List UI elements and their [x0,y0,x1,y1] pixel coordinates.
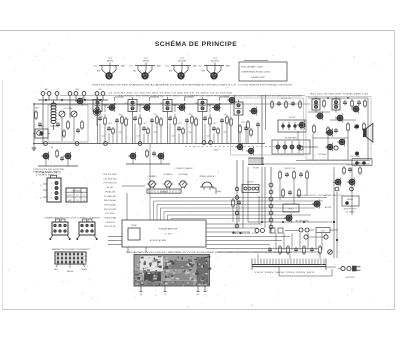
svg-text:CV 2x290p: CV 2x290p [63,108,72,110]
svg-text:1-3: 1-3 [76,200,78,202]
stage 1 bias network [102,97,124,144]
selector column B [232,160,241,234]
svg-text:R12 47K 1/2W: R12 47K 1/2W [103,174,116,176]
info box caption [238,84,292,87]
stage 1 labels [100,103,128,138]
svg-text:( PRISE CASQUE ): ( PRISE CASQUE ) [199,175,216,178]
plug label [345,277,355,279]
wire [262,161,370,165]
svg-text:EM: EM [202,71,205,73]
IF transformer T4 [198,97,207,144]
svg-text:POT 10K LOG: POT 10K LOG [104,183,117,185]
svg-text:PRISE: PRISE [131,225,137,227]
PCB pins [139,286,206,296]
svg-text:4-2: 4-2 [83,195,85,197]
svg-text:470: 470 [195,103,198,105]
svg-text:R31 220 1W: R31 220 1W [104,226,115,228]
title SCHEMA DE PRINCIPE [155,39,237,48]
transistor TR10o [337,138,345,147]
svg-text:C22: C22 [171,136,174,138]
wire [308,97,368,138]
svg-text:LW-MW 25/42: LW-MW 25/42 [251,77,266,79]
svg-text:VUES DE DESSOUS DES TRANSISTOR: VUES DE DESSOUS DES TRANSISTORS A L'ARRI… [92,84,237,87]
antenna input terminals [38,88,108,101]
transistor pinout Q-1 BF194 [93,58,125,80]
svg-text:FILTRE: FILTRE [253,168,260,170]
svg-text:EM: EM [97,71,100,73]
svg-text:R20 1K 1/2W: R20 1K 1/2W [104,209,116,211]
svg-text:R45 C47 R46: R45 C47 R46 [347,165,358,167]
svg-text:FM: FM [76,89,79,91]
switch SW1 [49,219,70,240]
wire [259,167,265,228]
svg-text:4K7: 4K7 [143,123,146,125]
svg-text:D2 OA90 GE: D2 OA90 GE [104,195,116,198]
IF transformer T1 [93,97,102,144]
svg-text:R15: R15 [223,132,226,134]
svg-text:SECTEUR 220: SECTEUR 220 [232,233,258,235]
preamp caption [33,169,65,174]
mini filter comb [248,158,264,170]
svg-text:C1 4n7 R1 22K C2 10n R2 4K7: C1 4n7 R1 22K C2 10n R2 4K7 T2 455 C3 40… [108,93,232,95]
tuning gang CV1 [48,105,88,142]
svg-text:AC187K / AC188K: AC187K / AC188K [150,239,167,242]
right bias parts [343,161,366,175]
svg-text:10n: 10n [189,114,192,116]
svg-text:R8: R8 [51,147,53,149]
caption [52,248,91,251]
svg-text:FUS.: FUS. [321,230,326,232]
detector labels row [233,94,302,97]
connection table [66,188,87,202]
wire [108,237,320,253]
stage 4 labels [205,103,233,138]
svg-text:C35 500uF: C35 500uF [318,154,328,156]
preamp pair [38,147,78,166]
stage 4 bias network [207,97,229,144]
parts list column [103,174,117,228]
svg-text:SELF 350mH: SELF 350mH [104,200,117,202]
svg-text:( TREBLE ): ( TREBLE ) [163,174,173,176]
svg-text:PICK-UP MAG : 25/50: PICK-UP MAG : 25/50 [241,66,264,69]
svg-text:TUNER FM(S) P4 902 +DIN 2: TUNER FM(S) P4 902 +DIN 2 [241,72,271,74]
PCB photograph [134,255,211,287]
IF transformer T3 [163,97,172,144]
scan speckle [8,34,391,308]
transistor TR2 [107,103,115,112]
transistor TR7d [297,121,305,130]
svg-text:TR6 BC148B: TR6 BC148B [104,218,116,220]
stage 1 extra parts [97,103,128,143]
driver pair [126,149,170,164]
ground bus [33,141,232,146]
stage 3 bias network [172,97,194,144]
transistor Q1 oscillator [75,97,83,106]
potentiometer P2 treble [163,181,173,189]
svg-text:LES COSSES REPÉRÉES CORRESPOND: LES COSSES REPÉRÉES CORRESPONDENT AUX LI… [218,251,293,254]
svg-text:2-4: 2-4 [83,200,85,202]
driver labels [175,167,194,170]
transistor TRy [235,143,242,151]
svg-text:( 2e CANAL ): ( 2e CANAL ) [345,211,355,214]
svg-text:( GRAVE ): ( GRAVE ) [148,175,157,178]
svg-text:C22: C22 [136,136,139,138]
relay block [342,196,359,214]
output bias parts [313,98,368,160]
svg-text:AJ. 4K7: AJ. 4K7 [106,186,114,189]
caption [44,217,100,220]
svg-text:PU 52-1: PU 52-1 [67,195,73,197]
svg-text:AC128: AC128 [325,206,332,209]
svg-text:VERS HP DROIT +9V MASSE CAG: VERS HP DROIT +9V MASSE CAG PU [296,194,343,197]
svg-text:COL: COL [198,66,202,68]
svg-text:ANT: ANT [54,268,57,271]
transistor TR4 [177,103,185,112]
junctions [335,187,353,191]
svg-text:R21 10K C24 22n T5 455K R22: R21 10K C24 22n T5 455K R22 1K D1 OA90 C… [233,94,302,97]
detector bias [247,120,260,144]
control labels [148,174,216,178]
svg-text:MASSE: MASSE [67,270,74,273]
dashed AGC line [185,147,282,152]
svg-text:R24 1K C26: R24 1K C26 [281,98,291,100]
svg-text:BF194: BF194 [107,61,114,63]
wire [279,267,332,276]
signal rail [33,96,310,105]
rectifier network [268,233,322,255]
svg-text:4K7: 4K7 [178,123,181,125]
wire [248,221,332,223]
svg-text:2 x 4 W: 2 x 4 W [165,234,172,236]
svg-text:10n: 10n [119,114,122,116]
svg-text:470: 470 [125,103,128,105]
amplifier module box [122,220,206,252]
svg-text:EM: EM [133,71,136,73]
ratio detector diodes [272,137,310,155]
module caption [126,251,215,254]
jack wires [212,188,222,194]
svg-text:PRISES DU TUNER: PRISES DU TUNER [33,172,61,174]
svg-text:HP 5 OHM: HP 5 OHM [351,156,360,158]
speaker label box [352,159,372,166]
potentiometer P1 grave [147,181,157,189]
labels [318,154,360,158]
diode D4 [328,250,333,255]
transistor TR6d [249,107,257,116]
headphone jack J1 [200,182,214,190]
svg-text:470: 470 [160,103,163,105]
ceramic filter pack [278,117,306,132]
transformer TR-A winding [252,254,326,270]
AF driver network [279,168,309,204]
output jack [304,233,328,239]
svg-text:COL: COL [165,66,169,68]
labels [310,92,368,95]
transistor pinout Q-3 BC148B [165,58,197,80]
svg-text:( TUNER ) ( MAGN. ): ( TUNER ) ( MAGN. ) [175,167,194,170]
svg-text:AM: AM [45,88,48,91]
wire [43,100,97,144]
transformer labels [254,272,314,274]
thermistor block [283,204,299,212]
svg-text:( VOLUME ): ( VOLUME ) [178,174,189,176]
svg-text:PLATINE AMPLI BF: PLATINE AMPLI BF [159,228,178,231]
component value labels row [108,93,232,98]
transistor TR11o [325,128,332,136]
svg-text:10n: 10n [154,114,157,116]
selector contact column [269,167,273,233]
control bus strip [147,189,181,193]
driver transformer TB [332,97,340,113]
switch SW2 [76,219,97,240]
svg-text:R15: R15 [188,132,191,134]
svg-text:FILTRE RATIO: FILTRE RATIO [285,137,298,140]
coil box L34 [33,126,50,138]
signal wire bundle [150,198,327,221]
svg-text:C22: C22 [206,136,209,138]
TR labels [296,206,332,223]
caption right [218,251,293,254]
wire [206,224,262,232]
AF coupling parts [271,98,302,109]
svg-text:±: ± [204,294,205,296]
transistor pinout Q-4 AC187K [198,58,230,80]
svg-text:BARRETTE DE RACCORDEMENT: BARRETTE DE RACCORDEMENT [52,248,91,251]
info box tensions [239,61,287,82]
stage 4 extra parts [202,103,233,143]
input network [32,103,42,150]
svg-text:10n: 10n [224,114,227,116]
stage 3 extra parts [167,103,198,143]
svg-text:EM: EM [169,71,172,73]
transistor TR10 [333,178,341,187]
output top parts [323,99,367,108]
output junctions [299,125,359,156]
wire [149,144,151,197]
svg-text:BC148B: BC148B [178,61,186,63]
svg-text:470: 470 [230,103,233,105]
transistor TR7o [315,112,323,121]
svg-text:SECTEUR: SECTEUR [345,277,355,279]
oscillator coil L2 [93,101,100,127]
stage 2 labels [135,103,163,138]
battery block [242,182,259,193]
svg-text:TOUT LES TENSIONS SONT PRISES: TOUT LES TENSIONS SONT PRISES AU CONTRÔL… [238,84,292,87]
svg-text:(CAG): (CAG) [213,149,219,152]
wire bundle labels [296,194,343,197]
transistor TR6 [284,214,292,223]
svg-text:FUS 250mA: FUS 250mA [105,203,117,206]
transistor TRz [246,147,253,155]
aux parts [232,198,241,222]
potentiometer P3 volume [178,181,188,189]
svg-text:BF195: BF195 [143,61,150,63]
transistor TR12o [325,143,332,151]
svg-text:TR5 AC128: TR5 AC128 [105,190,116,193]
svg-text:C27 47nF: C27 47nF [106,213,116,215]
svg-text:AC187K: AC187K [211,60,219,63]
transistor TR9o [351,105,359,114]
DIN connector block [40,175,61,202]
transistor TR8o [335,114,343,123]
caption [232,233,258,235]
svg-text:R31 220 TR7 AC187K TR8 AC188: R31 220 TR7 AC187K TR8 AC188K C33 [310,92,368,95]
stage 2 extra parts [132,103,163,143]
svg-text:R40 2K2 C41: R40 2K2 C41 [285,168,296,170]
transistor TR11 [347,178,355,187]
transistor TR3 [142,103,150,112]
svg-text:C14 10uF 25V: C14 10uF 25V [104,178,118,180]
svg-text:C22: C22 [101,136,104,138]
svg-text:3-5: 3-5 [76,195,78,197]
svg-text:+9: +9 [164,294,166,296]
svg-text:T6 10K7: T6 10K7 [289,117,296,119]
wire [333,167,352,258]
caption [33,172,61,177]
wire [232,131,318,147]
svg-text:110V 130V 160V 220V 245V: 110V 130V 160V 220V 245V 6V3 [254,272,314,274]
wire [122,160,248,228]
ferrite antenna L1 [50,100,57,130]
block outline [231,97,372,160]
svg-text:CASQ.: CASQ. [216,190,222,193]
wire [262,95,266,165]
svg-text:L 34: L 34 [39,126,42,128]
mains plug [326,266,361,272]
svg-text:COL: COL [129,66,133,68]
svg-text:VERS HP DROIT: VERS HP DROIT [343,209,356,211]
svg-text:AC187K/188K: AC187K/188K [296,220,309,223]
IF transformer T2 [128,97,137,144]
transistor pinout Q-2 BF195 [129,58,161,80]
driver transformer TA [312,97,320,113]
svg-text:T1 455K R5 680 C8 40p R9: T1 455K R5 680 C8 40p R9 1K2 T4 10R7 C9 … [118,96,230,98]
svg-text:TERRE: TERRE [81,269,88,271]
speaker HP1 [363,124,373,143]
svg-text:(2): (2) [140,294,143,296]
svg-text:CHANGEUR: CHANGEUR [72,190,82,193]
svg-text:COL: COL [93,66,97,68]
svg-text:RELAIS: RELAIS [347,198,354,201]
det extra parts [239,122,248,144]
svg-text:TH 4.7: TH 4.7 [288,209,293,211]
svg-text:R15: R15 [118,132,121,134]
transistor TR5 [212,103,220,112]
svg-text:SCHÉMA DE PRINCIPE: SCHÉMA DE PRINCIPE [155,39,237,48]
stage 2 bias network [137,97,159,144]
mains input parts [255,228,338,234]
transistor TRx [227,96,235,105]
stage 3 labels [170,103,198,138]
svg-text:4K7: 4K7 [108,123,111,125]
IF transformer T5 [234,100,243,144]
svg-text:D3 BY126: D3 BY126 [105,222,115,224]
svg-text:R15: R15 [153,132,156,134]
terminal strip [54,252,87,273]
svg-text:R19: R19 [241,122,244,124]
transistor TR5 [312,199,320,208]
svg-text:4K7: 4K7 [213,123,216,125]
pinout caption [92,84,237,87]
svg-text:IMPLANTATION DU CIRCUIT IMPRIM: IMPLANTATION DU CIRCUIT IMPRIMÉ VU CÔTÉ … [126,251,215,254]
